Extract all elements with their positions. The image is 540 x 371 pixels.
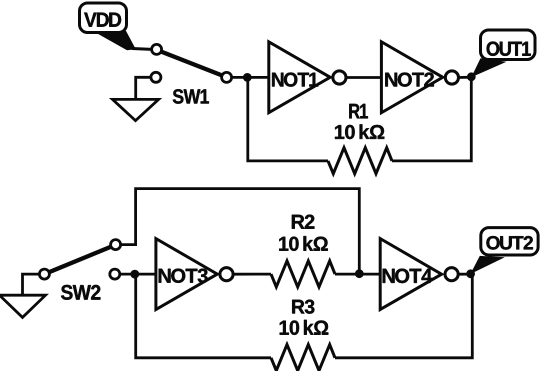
value 10 kOhm (R1) [335,124,384,139]
wire OUT1 node down to feedback rail [392,77,471,161]
switch SW2 throw contact (top) [111,240,121,250]
inverter NOT2 [381,42,458,113]
resistor R2 [271,261,335,287]
label R2 [292,215,315,229]
switch SW1 throw contact (VDD side) [152,44,162,54]
net label OUT2 [470,228,538,274]
node OUT2 junction [466,269,475,278]
node OUT1 junction [467,72,476,81]
label R1 [349,104,368,119]
resistor R3 [271,345,335,371]
switch SW1 lever [161,52,222,76]
inverter NOT3 [156,239,233,310]
net label OUT1 [471,30,535,77]
wire SW1 throw to ground [136,77,151,99]
switch SW2 lever [49,247,111,273]
resistor R1 [328,148,392,174]
switch SW2 throw contact (bottom) [110,269,120,279]
label SW2 [61,285,100,300]
node NOT1 input junction [243,73,252,82]
node R2/NOT4 junction [355,269,364,278]
wire OUT2 node down to R3 rail [335,274,472,358]
label R3 [292,300,314,314]
wire SW2 pole to ground [23,274,40,295]
node NOT3 input junction [130,270,139,279]
value 10 kOhm (R3) [280,320,329,335]
wire bottom top-rail (R2 bypass) [121,189,360,274]
wire NOT4 output to OUT2 node [458,273,470,276]
wire NOT1 output to NOT2 input [346,76,381,79]
value 10 kOhm (R2) [279,236,328,251]
ground (bottom) [0,295,46,317]
wire SW1 pole to NOT1 input [232,76,269,79]
wire SW2 throw to NOT3 input [120,273,156,276]
switch SW1 pole contact [222,72,232,82]
inverter NOT1 [269,42,346,113]
switch SW2 pole contact [39,269,49,279]
wire NOT2 output to OUT1 node [459,76,472,79]
wire R3 rail to NOT3 input [136,274,271,358]
switch SW1 throw contact (ground side) [151,72,161,82]
ground (top) [113,99,159,120]
wire feedback rail to NOT1 input [248,77,328,160]
wire VDD taper to switch [96,31,152,50]
label SW1 [173,89,209,104]
inverter NOT4 [380,239,458,310]
net label VDD [80,3,127,33]
wire NOT3 output to R2 [233,273,271,276]
wire R2 to NOT4 input [335,273,380,276]
